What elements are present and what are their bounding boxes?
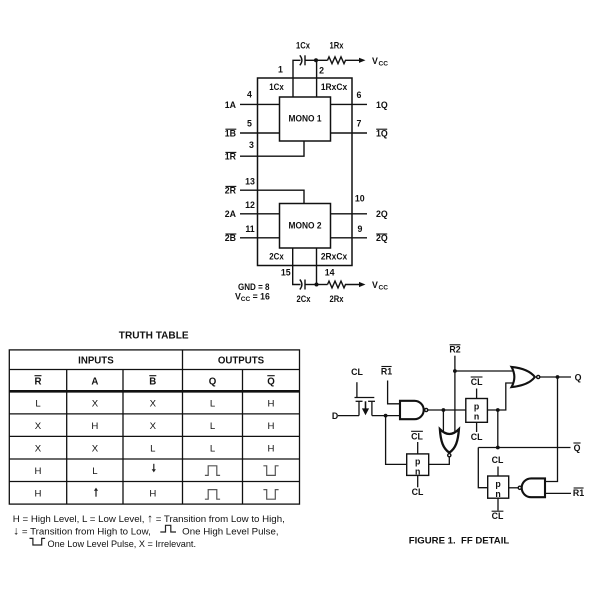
svg-text:H: H: [35, 489, 42, 500]
svg-text:One High Level Pulse,: One High Level Pulse,: [182, 527, 278, 538]
svg-text:L: L: [150, 444, 156, 455]
svg-text:14: 14: [325, 268, 335, 278]
svg-text:H: H: [268, 421, 275, 432]
svg-text:TRUTH TABLE: TRUTH TABLE: [119, 331, 189, 342]
svg-text:FIGURE 1. FF DETAIL: FIGURE 1. FF DETAIL: [409, 535, 510, 546]
svg-text:4: 4: [247, 89, 252, 99]
svg-text:1Q: 1Q: [376, 128, 388, 138]
svg-text:Q: Q: [267, 377, 275, 388]
svg-text:L: L: [210, 444, 216, 455]
svg-text:1RxCx: 1RxCx: [321, 82, 347, 92]
svg-text:GND = 8: GND = 8: [238, 282, 270, 292]
svg-text:↓ = Transition from High to Lo: ↓ = Transition from High to Low,: [13, 526, 151, 538]
svg-text:X: X: [92, 444, 99, 455]
svg-text:n: n: [474, 412, 479, 422]
svg-text:X: X: [150, 399, 157, 410]
svg-text:A: A: [91, 377, 98, 388]
svg-text:3: 3: [249, 140, 254, 150]
svg-text:Q: Q: [574, 443, 581, 453]
svg-text:CC: CC: [379, 285, 389, 292]
svg-text:1R: 1R: [225, 152, 237, 162]
svg-text:H = High Level, L = Low Level,: H = High Level, L = Low Level, ↑ = Trans…: [13, 513, 285, 525]
svg-text:p: p: [415, 457, 421, 467]
svg-text:B: B: [149, 377, 156, 388]
svg-text:10: 10: [355, 194, 365, 204]
svg-text:2RxCx: 2RxCx: [321, 251, 347, 261]
svg-text:MONO 1: MONO 1: [289, 114, 322, 124]
svg-text:R2: R2: [449, 345, 460, 355]
svg-text:1Cx: 1Cx: [296, 41, 310, 51]
svg-text:V: V: [372, 56, 378, 66]
svg-text:X: X: [92, 399, 99, 410]
svg-text:CL: CL: [411, 431, 423, 441]
svg-text:12: 12: [245, 200, 255, 210]
svg-text:L: L: [35, 399, 41, 410]
svg-text:n: n: [415, 467, 420, 477]
svg-text:Q: Q: [575, 373, 582, 383]
svg-text:6: 6: [357, 90, 362, 100]
svg-text:INPUTS: INPUTS: [78, 355, 114, 366]
svg-text:2Cx: 2Cx: [269, 251, 284, 261]
svg-text:2Q: 2Q: [376, 233, 388, 243]
svg-text:1Q: 1Q: [376, 100, 388, 110]
svg-text:CL: CL: [471, 377, 483, 387]
svg-text:V: V: [372, 280, 378, 290]
svg-text:1Cx: 1Cx: [269, 82, 284, 92]
svg-text:2R: 2R: [225, 186, 237, 196]
svg-text:15: 15: [281, 268, 291, 278]
svg-text:2Rx: 2Rx: [330, 294, 344, 304]
svg-text:CL: CL: [351, 367, 363, 377]
svg-text:p: p: [474, 402, 480, 412]
svg-text:R1: R1: [381, 367, 392, 377]
svg-text:1A: 1A: [225, 100, 237, 110]
svg-text:CC: CC: [241, 296, 251, 303]
svg-text:H: H: [91, 421, 98, 432]
svg-text:MONO 2: MONO 2: [289, 221, 322, 231]
svg-text:9: 9: [358, 224, 363, 234]
svg-text:2Cx: 2Cx: [297, 294, 311, 304]
svg-text:L: L: [210, 399, 216, 410]
svg-text:R: R: [35, 377, 42, 388]
svg-text:2Q: 2Q: [376, 209, 388, 219]
svg-text:7: 7: [357, 118, 362, 128]
svg-text:= 16: = 16: [253, 292, 270, 302]
svg-text:2B: 2B: [225, 233, 236, 243]
svg-text:13: 13: [245, 176, 255, 186]
svg-text:H: H: [268, 399, 275, 410]
svg-text:X: X: [35, 421, 42, 432]
svg-text:CL: CL: [412, 487, 424, 497]
svg-text:CL: CL: [471, 432, 483, 442]
svg-text:H: H: [35, 466, 42, 477]
svg-text:L: L: [210, 421, 216, 432]
svg-text:X: X: [35, 444, 42, 455]
svg-text:1Rx: 1Rx: [330, 41, 344, 51]
svg-text:5: 5: [247, 118, 252, 128]
svg-text:X: X: [150, 421, 157, 432]
svg-text:H: H: [268, 444, 275, 455]
svg-text:n: n: [495, 489, 500, 499]
svg-text:OUTPUTS: OUTPUTS: [218, 355, 265, 366]
svg-text:2: 2: [319, 65, 324, 75]
svg-text:R1: R1: [573, 488, 584, 498]
svg-text:CL: CL: [492, 455, 504, 465]
svg-text:Q: Q: [209, 377, 217, 388]
svg-text:11: 11: [245, 224, 254, 234]
svg-text:CC: CC: [379, 60, 389, 67]
svg-text:L: L: [92, 466, 98, 477]
svg-text:One Low Level Pulse, X = Irrel: One Low Level Pulse, X = Irrelevant.: [48, 539, 197, 550]
svg-text:1B: 1B: [225, 128, 236, 138]
svg-text:p: p: [495, 479, 501, 489]
svg-text:CL: CL: [492, 511, 504, 521]
svg-text:D: D: [332, 411, 338, 421]
svg-text:H: H: [149, 489, 156, 500]
svg-text:1: 1: [278, 65, 283, 75]
svg-text:2A: 2A: [225, 209, 237, 219]
